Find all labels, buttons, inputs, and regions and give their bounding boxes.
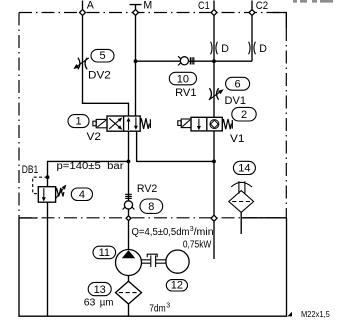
- wire: RV2 to tank boundary: [128, 209, 130, 216]
- valve V2 solenoid box: [96, 119, 107, 127]
- relief valve DB1 adjust arrow: [56, 185, 66, 199]
- manifold/tank boundary chain line: [19, 217, 286, 219]
- enclosure border top (chain line): [19, 12, 286, 14]
- svg-text:p=140±5 bar: p=140±5 bar: [57, 161, 125, 172]
- valve V1 solenoid nub: [178, 121, 181, 126]
- wire: C1 line down to V1: [213, 16, 215, 118]
- throttle DV2: [73, 58, 89, 70]
- svg-text:/min: /min: [194, 227, 214, 238]
- wire: breather dip tube: [240, 212, 242, 234]
- svg-text:RV2: RV2: [137, 183, 158, 195]
- pump 11: [116, 250, 142, 276]
- svg-text:12: 12: [171, 280, 183, 292]
- coupling D on C2: [249, 42, 256, 55]
- valve V1 spring: [222, 119, 232, 129]
- coupling D on C1: [211, 42, 218, 55]
- valve V1 down arrow: [197, 119, 201, 131]
- relief valve DB1 body: [38, 187, 55, 203]
- label 1: [68, 115, 89, 128]
- label 12: [166, 280, 187, 291]
- valve V2 body: [107, 116, 140, 131]
- wire: V1 return into tank: [213, 221, 215, 259]
- valve V1 body: [191, 117, 222, 131]
- enclosure border right: [285, 28, 287, 218]
- valve V2 spring: [140, 118, 150, 129]
- svg-text:C1: C1: [198, 0, 210, 12]
- svg-text:63: 63: [84, 296, 96, 308]
- tank top edge left segment: [19, 217, 37, 219]
- node: pump suction port diamond: [126, 216, 131, 221]
- svg-text:1: 1: [75, 116, 81, 128]
- wire: A line down through DV2 then jog to V2 top-left port: [83, 16, 129, 116]
- node: junction C1/RV1: [212, 59, 216, 63]
- svg-text:7dm: 7dm: [149, 303, 166, 315]
- cropped gray text top right: [293, 0, 333, 3]
- svg-text:A: A: [87, 0, 95, 12]
- throttle DV1: [209, 88, 224, 100]
- svg-text:Q=4,5±0,5dm: Q=4,5±0,5dm: [132, 227, 190, 238]
- motor 12: [166, 250, 189, 273]
- port C2 diamond: [249, 10, 255, 16]
- svg-text:4: 4: [79, 189, 85, 201]
- relief valve DB1 spring: [56, 188, 64, 197]
- wire: V1 return line down: [213, 131, 215, 215]
- port M diamond: [133, 10, 139, 16]
- port C1 diamond: [211, 10, 217, 16]
- svg-text:DV1: DV1: [225, 95, 247, 107]
- wire: A line stub above port: [82, 1, 84, 10]
- check valve RV2: [123, 194, 135, 209]
- enclosure border top-right corner: [273, 13, 287, 29]
- svg-text:V1: V1: [230, 133, 245, 145]
- node: pressure junction: [127, 160, 131, 164]
- svg-text:5: 5: [99, 50, 105, 62]
- breather filter 14: [229, 181, 254, 212]
- wire: boundary to pump: [128, 221, 130, 251]
- check valve RV1: [178, 56, 194, 65]
- wire: C1 stub above port: [213, 1, 215, 10]
- svg-text:µm: µm: [100, 296, 114, 308]
- wire: V2 pressure port down to pump line: [128, 131, 130, 201]
- node: DB1 pilot junction: [46, 175, 50, 179]
- svg-text:6: 6: [235, 78, 241, 90]
- svg-text:0,75kW: 0,75kW: [183, 240, 212, 251]
- tank top edge right segment: [241, 217, 286, 219]
- label 14: [233, 161, 255, 174]
- wire: DB1 discharge to tank: [47, 202, 49, 316]
- wire: M line down to V2 top-right port: [135, 16, 137, 116]
- valve V2 solenoid nub: [93, 121, 96, 126]
- svg-text:D: D: [221, 43, 229, 55]
- svg-text:V2: V2: [87, 131, 102, 143]
- svg-text:M: M: [143, 0, 152, 12]
- wire: RV1 cross line M to C1/C2: [136, 60, 253, 62]
- label 8: [140, 199, 163, 213]
- node: junction M/RV1: [134, 59, 138, 63]
- label 6: [226, 77, 250, 90]
- label 10: [169, 72, 196, 85]
- svg-text:11: 11: [99, 247, 110, 259]
- svg-text:2: 2: [241, 109, 247, 121]
- valve V2 up arrow: [127, 117, 131, 130]
- svg-text:3: 3: [166, 302, 170, 309]
- port A diamond: [80, 10, 86, 16]
- svg-text:DB1: DB1: [22, 164, 39, 176]
- label 4: [71, 188, 92, 201]
- label 5: [91, 49, 114, 62]
- valve V2 down arrow: [134, 117, 138, 130]
- valve V2 crossed arrows: [109, 118, 122, 130]
- svg-text:M22x1,5: M22x1,5: [301, 310, 330, 319]
- svg-text:DV2: DV2: [88, 70, 111, 82]
- node: return junction: [212, 160, 216, 164]
- enclosure border left: [18, 13, 20, 218]
- wire: V2 return jog to V1 return: [137, 131, 214, 161]
- tank drain corner mark: [287, 312, 292, 317]
- valve V1 check poppet: [210, 120, 219, 129]
- suction filter 13: [116, 275, 142, 316]
- svg-text:8: 8: [148, 201, 154, 213]
- label 2: [232, 107, 256, 121]
- tank outline: [19, 218, 287, 317]
- label 11: [93, 246, 116, 259]
- wire: M port plug: [130, 5, 142, 10]
- svg-text:C2: C2: [256, 0, 268, 12]
- node: return port diamond: [211, 215, 217, 221]
- wire: pressure line to DB1: [48, 161, 129, 186]
- svg-text:13: 13: [94, 284, 106, 296]
- svg-text:D: D: [259, 43, 267, 55]
- valve V1 solenoid box: [181, 119, 191, 128]
- wire: C2 line down to cross line: [251, 16, 253, 61]
- relief valve DB1 pilot dashed line: [33, 177, 48, 193]
- svg-text:10: 10: [177, 74, 189, 86]
- shaft coupling: [141, 254, 166, 267]
- label 13: [88, 282, 111, 295]
- wire: C2 stub above port: [251, 1, 253, 10]
- svg-text:14: 14: [238, 163, 250, 175]
- svg-text:RV1: RV1: [175, 87, 197, 99]
